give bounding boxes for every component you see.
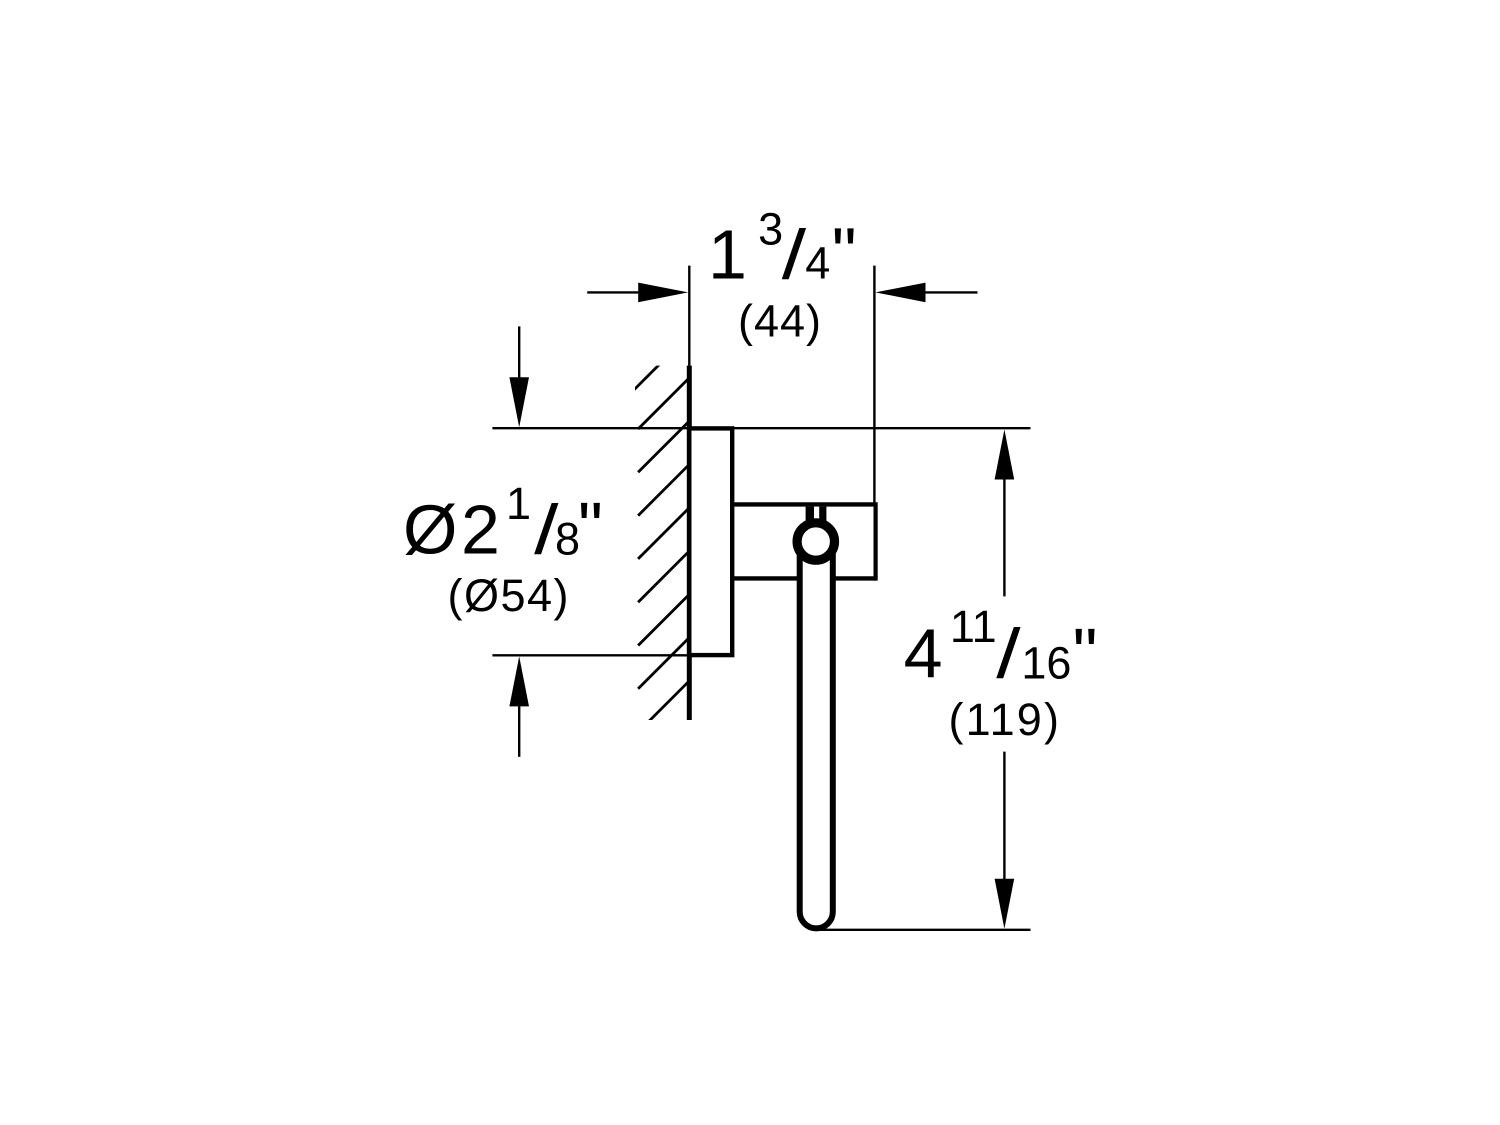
svg-text:(44): (44)	[738, 296, 822, 347]
svg-text:": "	[1073, 614, 1098, 692]
svg-text:": "	[832, 213, 857, 291]
svg-text:8: 8	[555, 514, 580, 565]
height dimension bottom line	[820, 929, 1031, 931]
extension line right	[873, 266, 875, 503]
diameter dimension up arrow	[518, 705, 520, 757]
svg-text:4: 4	[805, 237, 830, 288]
svg-text:1: 1	[506, 478, 531, 529]
svg-text:/: /	[996, 614, 1021, 693]
ring eye	[797, 523, 834, 560]
ring pivot stub	[806, 507, 827, 527]
svg-text:Ø2: Ø2	[403, 491, 503, 569]
diameter dimension bottom line	[492, 654, 690, 656]
wall hatching	[595, 335, 732, 775]
height dimension up arrow	[1003, 478, 1005, 596]
holder arm right edge	[873, 502, 877, 580]
extension line left (above wall)	[688, 266, 690, 367]
holder arm top edge	[730, 502, 876, 506]
diameter dimension top line	[492, 427, 690, 429]
ring loop	[800, 549, 833, 928]
svg-text:(119): (119)	[949, 694, 1062, 745]
svg-text:11: 11	[950, 601, 997, 652]
svg-text:": "	[578, 488, 603, 566]
holder arm bottom edge left segment	[732, 576, 797, 580]
svg-text:4: 4	[904, 615, 943, 693]
width dimension arrow right	[925, 291, 978, 293]
diameter dimension down arrow	[518, 326, 520, 379]
wall face line	[687, 366, 692, 720]
svg-text:/: /	[782, 215, 807, 294]
wall mounting plate	[689, 428, 732, 655]
svg-text:16: 16	[1021, 637, 1071, 688]
height dimension down arrow	[1003, 752, 1005, 881]
width dimension arrow left	[587, 291, 640, 293]
svg-text:1: 1	[708, 215, 747, 293]
height dimension top line	[732, 427, 1031, 429]
holder arm bottom edge right segment	[836, 576, 876, 580]
svg-text:(Ø54): (Ø54)	[448, 570, 571, 621]
svg-text:3: 3	[758, 203, 783, 254]
